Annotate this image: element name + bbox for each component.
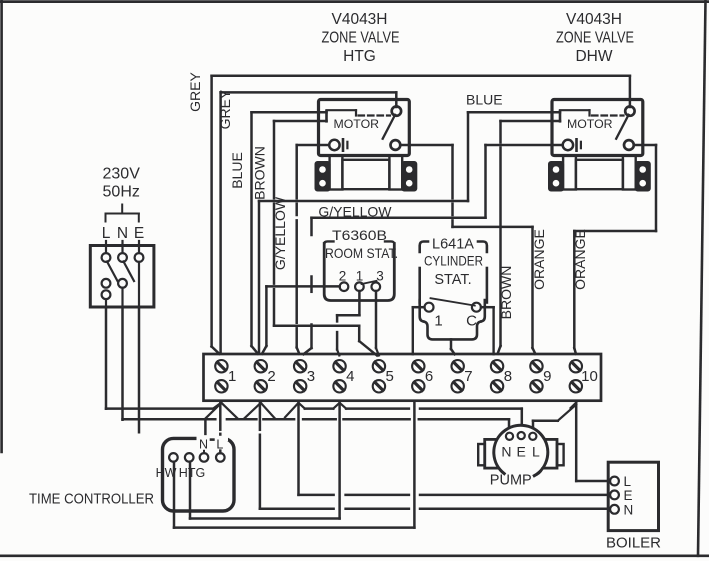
svg-text:1: 1 [434,313,442,330]
svg-text:DHW: DHW [575,48,612,65]
svg-text:GREY: GREY [187,72,203,112]
svg-text:BROWN: BROWN [498,266,514,320]
svg-text:CYLINDER: CYLINDER [424,253,483,268]
svg-text:STAT.: STAT. [434,272,471,288]
svg-text:BOILER: BOILER [606,534,661,551]
svg-text:C: C [466,313,477,330]
svg-text:ORANGE: ORANGE [531,229,547,290]
svg-text:1: 1 [228,368,236,385]
svg-text:G/YELLOW: G/YELLOW [272,196,288,270]
svg-text:2: 2 [267,368,275,385]
svg-text:G/YELLOW: G/YELLOW [318,204,392,220]
svg-text:1: 1 [356,269,364,284]
svg-text:L: L [102,225,111,242]
svg-text:N: N [624,502,634,517]
svg-text:6: 6 [425,368,433,385]
svg-text:BLUE: BLUE [466,92,503,108]
svg-text:BROWN: BROWN [251,146,267,200]
svg-text:L641A: L641A [432,237,474,253]
svg-text:L: L [624,474,632,489]
svg-text:MOTOR: MOTOR [567,117,613,131]
svg-text:V4043H: V4043H [331,11,387,28]
svg-text:7: 7 [464,368,472,385]
svg-text:2: 2 [339,269,347,284]
svg-text:9: 9 [543,368,551,385]
svg-text:230V: 230V [103,166,141,183]
svg-text:MOTOR: MOTOR [334,117,380,131]
svg-text:ROOM STAT.: ROOM STAT. [325,245,398,261]
svg-text:ZONE VALVE: ZONE VALVE [322,30,400,47]
svg-text:GREY: GREY [217,89,233,129]
svg-text:8: 8 [504,368,512,385]
svg-text:E: E [624,488,633,503]
svg-text:10: 10 [581,368,598,385]
svg-text:ORANGE: ORANGE [572,229,588,290]
svg-text:4: 4 [346,368,354,385]
svg-text:E: E [134,225,144,242]
svg-text:BLUE: BLUE [229,152,245,189]
svg-text:V4043H: V4043H [566,11,622,28]
svg-text:HTG: HTG [343,48,376,65]
svg-text:PUMP: PUMP [490,472,532,488]
svg-text:HTG: HTG [179,466,205,480]
svg-text:N: N [117,225,128,242]
svg-text:3: 3 [307,368,315,385]
svg-text:5: 5 [386,368,394,385]
svg-text:ZONE VALVE: ZONE VALVE [556,30,634,47]
svg-text:N: N [199,438,208,452]
svg-text:L: L [532,443,540,459]
svg-text:T6360B: T6360B [332,228,387,243]
svg-text:N: N [501,443,511,459]
svg-text:50Hz: 50Hz [103,184,140,201]
svg-text:TIME CONTROLLER: TIME CONTROLLER [29,491,154,508]
svg-text:E: E [517,443,526,459]
